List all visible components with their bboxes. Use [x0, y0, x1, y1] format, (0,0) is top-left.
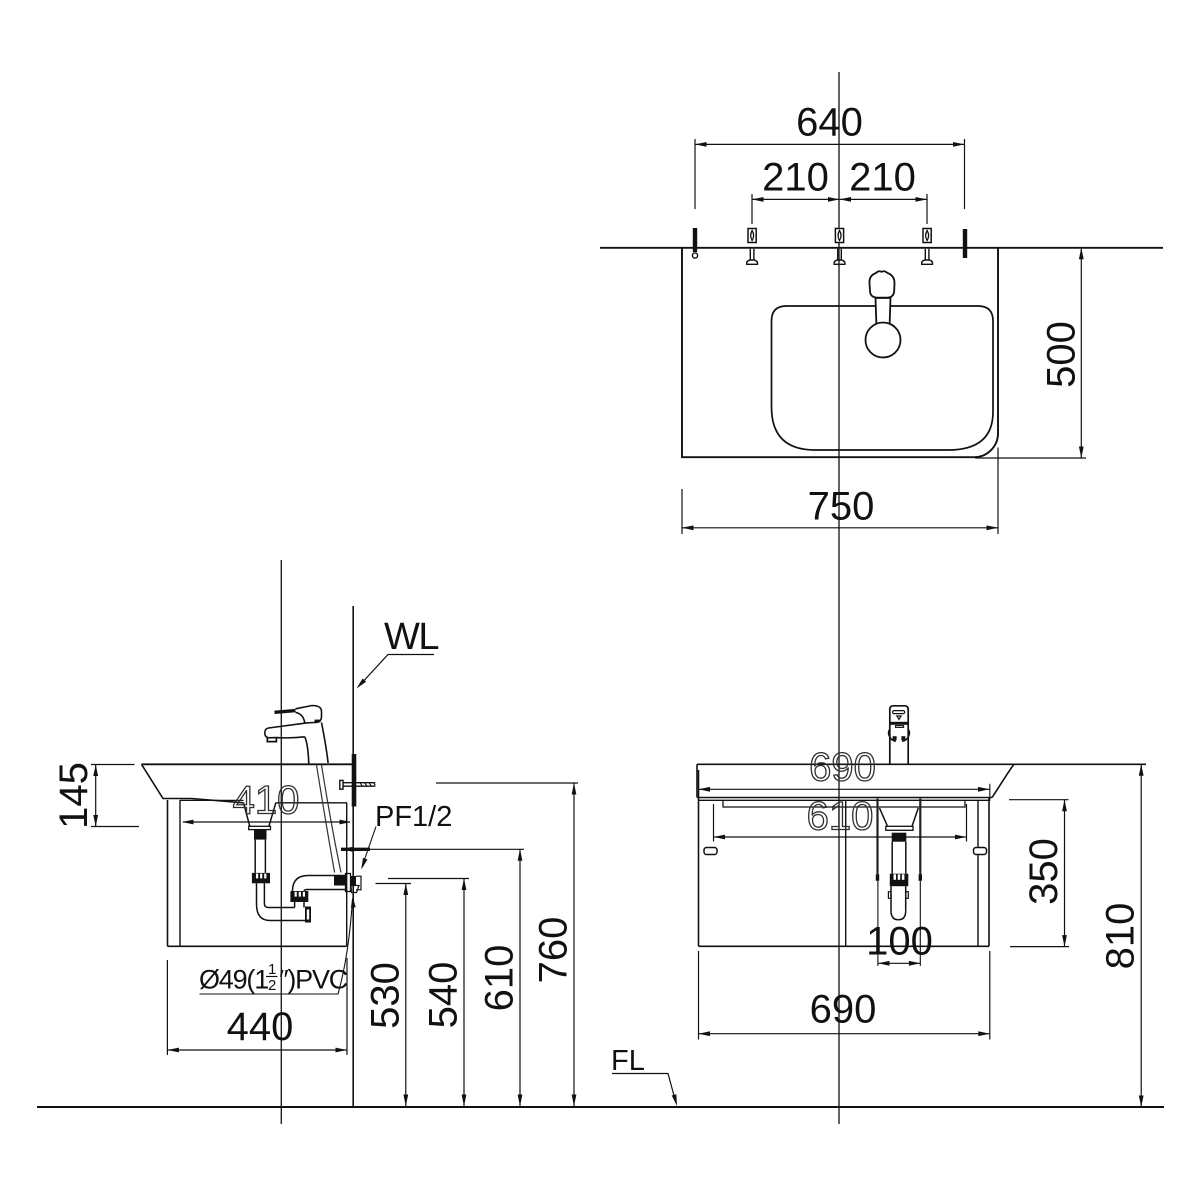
svg-text:530: 530 [364, 962, 408, 1029]
svg-text:690: 690 [809, 746, 876, 790]
cabinet door split [845, 800, 847, 946]
svg-text:690: 690 [810, 988, 877, 1032]
dim 210 line [752, 198, 927, 200]
svg-text:WL: WL [384, 616, 438, 658]
svg-text:350: 350 [1022, 838, 1066, 905]
svg-text:100: 100 [866, 920, 933, 964]
pop-up rod (side) [317, 765, 335, 873]
wall line WL (vertical) [352, 606, 354, 1106]
cabinet (front view) [698, 770, 700, 946]
dim 810 (front far right) [1140, 764, 1142, 1107]
door handle left [704, 848, 717, 855]
trap pipe below nut (side) [256, 883, 258, 904]
wall outlet fitting (side) [334, 876, 346, 886]
dim 500 bottom extension [975, 457, 1086, 459]
trap cup (front) [890, 886, 892, 912]
left anchor tick on wall [693, 228, 697, 252]
dim 690 (front bottom) [698, 951, 700, 1040]
mounting bolt center [834, 229, 845, 265]
wall line (top view) [600, 247, 1163, 249]
trap outlet elbow to wall (side) [293, 876, 346, 892]
union nut (front) [890, 874, 909, 887]
floor line FL [37, 1106, 1164, 1108]
faucet (top view) spout circle [866, 323, 901, 358]
svg-text:2: 2 [268, 977, 276, 994]
faucet (side view) [265, 706, 328, 764]
WL leader [359, 655, 434, 687]
Ø49 underline + leader [200, 899, 353, 994]
mounting bolt right [922, 229, 933, 265]
svg-text:810: 810 [1099, 903, 1143, 970]
trap union nut upper (side) [252, 873, 270, 883]
cabinet (side view) [167, 800, 169, 946]
trap tailpipe (side) [254, 840, 256, 873]
sink underside to wall (side) [276, 802, 347, 804]
svg-text:145: 145 [52, 762, 96, 829]
dim 750 extension lines [681, 489, 683, 534]
side view centerline [280, 560, 282, 1124]
basin inner outline (top view) [772, 306, 994, 450]
svg-text:1: 1 [268, 961, 276, 978]
dim 440 (side bottom) [166, 960, 168, 1055]
door handle right [974, 848, 987, 855]
svg-text:″)PVC: ″)PVC [279, 965, 348, 995]
drain funnel (front) [880, 808, 919, 826]
sink front profile (side) [142, 764, 244, 803]
svg-text:640: 640 [796, 100, 863, 144]
svg-text:Ø49(1: Ø49(1 [199, 965, 268, 995]
right anchor tick on wall [963, 229, 967, 258]
dim 530 (side) [376, 883, 412, 885]
mounting bolt left [747, 229, 758, 265]
drain pipe (front) [891, 842, 893, 874]
faucet (front view) [889, 706, 910, 765]
vertical centerline (top+front views) [838, 72, 840, 1124]
trap bottom elbow (side) [257, 904, 306, 921]
faucet (top view) body [876, 298, 891, 328]
dim 145 (side left) [91, 764, 135, 766]
supply screw PF1/2 (side) [340, 780, 376, 789]
left anchor dot [692, 253, 697, 258]
slab left edge [696, 764, 698, 797]
sink top surface (side) [142, 763, 354, 765]
svg-text:540: 540 [422, 962, 466, 1029]
svg-text:750: 750 [808, 485, 875, 529]
svg-text:210: 210 [762, 155, 829, 199]
hanger rods (front) [876, 799, 878, 875]
dim 750 line [682, 527, 998, 529]
basin base strip [723, 800, 965, 807]
svg-text:610: 610 [807, 795, 874, 839]
svg-text:PF1/2: PF1/2 [375, 801, 452, 833]
svg-text:760: 760 [532, 917, 576, 984]
washbasin slab top (front) + 810 extension [697, 763, 1146, 765]
svg-text:FL: FL [611, 1045, 645, 1077]
dim 350 (front right) [1009, 799, 1069, 801]
dim 760 (side) [436, 782, 578, 784]
svg-text:210: 210 [849, 155, 916, 199]
wall anchor thick bar (side) [352, 754, 357, 807]
sink outer outline (top view) [682, 248, 998, 457]
dim 640 extension lines [694, 139, 696, 209]
trap cleanout end cap (side) [305, 907, 311, 923]
svg-text:610: 610 [478, 945, 522, 1012]
svg-text:440: 440 [227, 1005, 294, 1049]
dim 640 line [695, 143, 965, 145]
faucet (top view) handle [869, 271, 894, 297]
slab right curve [992, 764, 1014, 797]
trap union nut lower (side) [290, 891, 308, 902]
svg-text:500: 500 [1040, 321, 1084, 388]
svg-text:410: 410 [233, 779, 300, 823]
trap riser (side) [294, 902, 296, 908]
slab bottom [697, 797, 992, 799]
PF1/2 leader [362, 827, 376, 868]
dim 500 line [1080, 248, 1082, 458]
drain funnel (side) [244, 803, 276, 827]
dim 210 extension lines [751, 194, 753, 224]
FL leader [612, 1074, 676, 1104]
basin base line [699, 799, 990, 801]
dim 100 (front) [878, 962, 920, 964]
dim 610 (side) [341, 848, 370, 851]
dim 540 (side) [388, 878, 469, 880]
